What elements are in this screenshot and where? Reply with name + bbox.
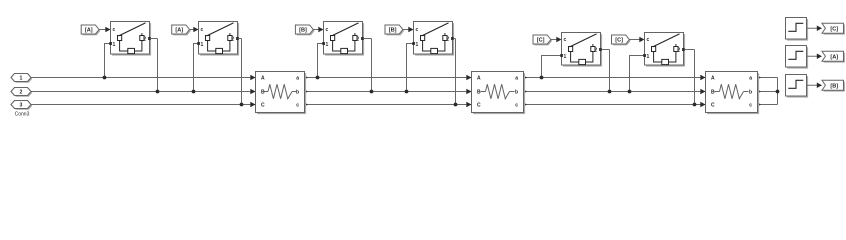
svg-text:B: B [261, 90, 265, 96]
svg-text:[B]: [B] [830, 83, 838, 89]
svg-text:c: c [564, 37, 567, 43]
svg-text:B: B [711, 90, 715, 96]
svg-text:1: 1 [564, 54, 567, 60]
svg-text:a: a [296, 76, 299, 82]
svg-text:c: c [296, 103, 299, 109]
svg-text:A: A [261, 76, 265, 82]
svg-text:A: A [477, 76, 481, 82]
svg-text:1: 1 [326, 42, 329, 48]
svg-text:[A]: [A] [85, 28, 93, 34]
svg-text:c: c [113, 27, 116, 33]
svg-text:C: C [477, 103, 481, 109]
svg-text:1: 1 [647, 54, 650, 60]
svg-text:[B]: [B] [389, 28, 397, 34]
svg-text:2: 2 [20, 90, 23, 96]
svg-text:b: b [296, 90, 299, 96]
svg-text:[C]: [C] [830, 26, 838, 32]
svg-text:[C]: [C] [537, 38, 545, 44]
svg-text:c: c [647, 37, 650, 43]
svg-text:C: C [261, 103, 265, 109]
svg-text:a: a [515, 76, 518, 82]
svg-text:[A]: [A] [830, 54, 838, 60]
svg-text:b: b [515, 90, 518, 96]
svg-text:a: a [749, 76, 752, 82]
svg-text:c: c [749, 103, 752, 109]
svg-text:B: B [477, 90, 481, 96]
svg-text:c: c [201, 27, 204, 33]
svg-text:[C]: [C] [615, 38, 623, 44]
svg-text:b: b [749, 90, 752, 96]
svg-text:Conn3: Conn3 [15, 111, 30, 117]
svg-text:c: c [326, 27, 329, 33]
svg-text:1: 1 [201, 42, 204, 48]
svg-text:C: C [711, 103, 715, 109]
svg-text:c: c [416, 27, 419, 33]
svg-text:1: 1 [113, 42, 116, 48]
svg-text:A: A [711, 76, 715, 82]
svg-text:[B]: [B] [299, 28, 307, 34]
svg-text:1: 1 [416, 42, 419, 48]
svg-text:1: 1 [20, 76, 23, 82]
svg-text:[A]: [A] [175, 28, 183, 34]
svg-text:c: c [515, 103, 518, 109]
svg-text:3: 3 [20, 103, 23, 109]
